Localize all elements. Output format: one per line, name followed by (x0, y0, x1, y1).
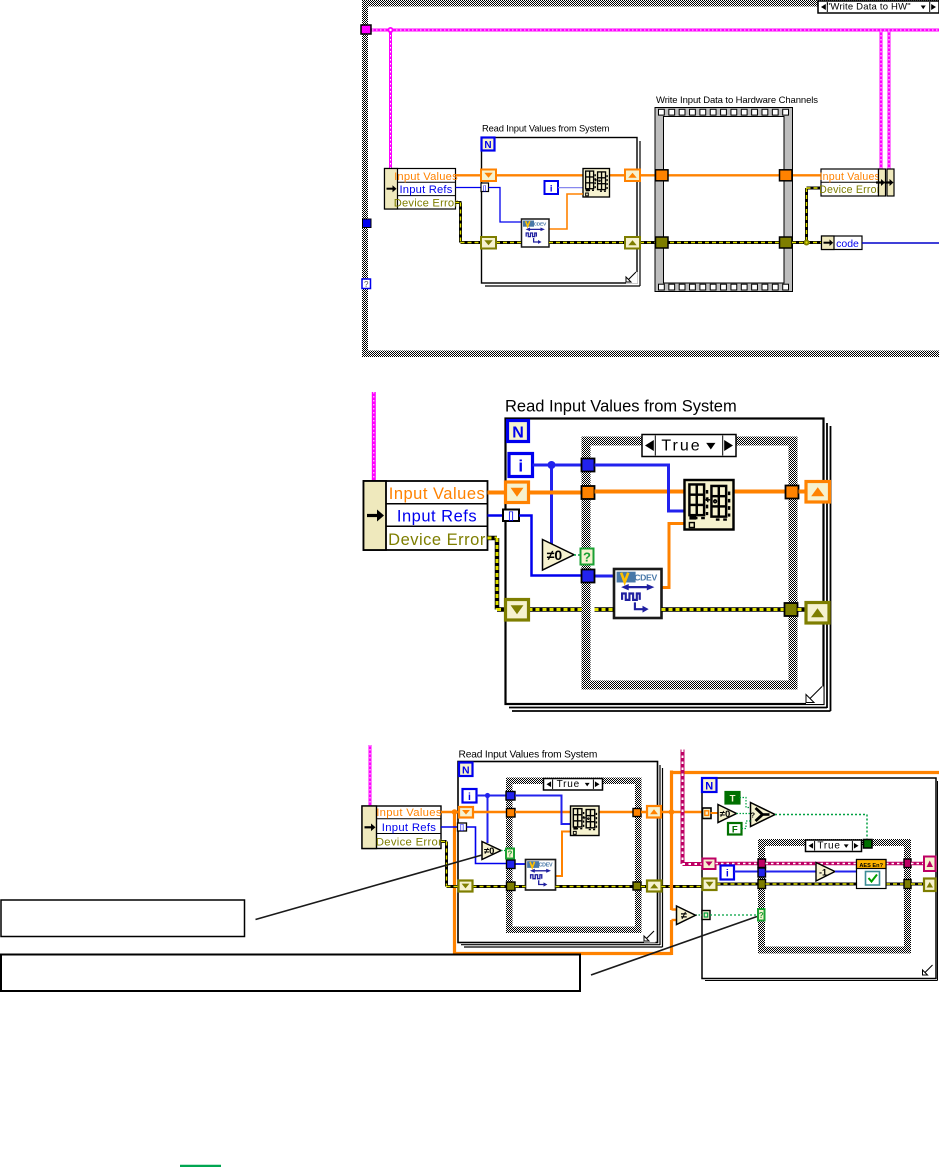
svg-text:N: N (462, 765, 470, 777)
svg-text:Input Refs: Input Refs (382, 822, 437, 834)
svg-text:Device Error: Device Error (388, 531, 486, 549)
svg-text:Input Values: Input Values (820, 171, 881, 183)
svg-text:Input Refs: Input Refs (400, 184, 453, 196)
svg-text:"Write Data to HW": "Write Data to HW" (827, 2, 911, 13)
svg-text:?: ? (508, 850, 513, 859)
svg-text:?: ? (364, 280, 369, 289)
svg-text:i: i (726, 868, 729, 880)
svg-text:≠0: ≠0 (484, 846, 495, 857)
svg-text:Device Error: Device Error (376, 837, 442, 849)
svg-text:N: N (512, 425, 524, 442)
svg-text:CDEV: CDEV (539, 863, 553, 869)
svg-text:≠0: ≠0 (547, 547, 563, 563)
svg-text:i: i (468, 791, 471, 803)
svg-text:Read Input Values from System: Read Input Values from System (505, 398, 737, 416)
svg-text:?: ? (759, 911, 764, 920)
svg-text:[]: [] (483, 185, 487, 192)
svg-text:≠0: ≠0 (720, 809, 731, 820)
svg-text:AES En?: AES En? (859, 863, 883, 869)
svg-text:[]: [] (460, 825, 464, 832)
svg-text:CDEV: CDEV (534, 221, 547, 227)
svg-text:≠: ≠ (681, 910, 687, 922)
svg-text:Input Values: Input Values (376, 807, 442, 819)
svg-text:True: True (661, 437, 701, 454)
svg-text:Device Error: Device Error (394, 198, 459, 210)
svg-text:Read Input Values from System: Read Input Values from System (482, 123, 610, 134)
svg-text:True: True (817, 840, 840, 851)
svg-text:Read Input Values from System: Read Input Values from System (459, 750, 598, 761)
svg-text:True: True (557, 779, 580, 790)
svg-text:i: i (550, 183, 553, 194)
svg-text:Input Values: Input Values (389, 485, 486, 503)
svg-text:N: N (484, 140, 491, 151)
svg-text:Input Values: Input Values (394, 171, 458, 183)
svg-text:?: ? (751, 811, 756, 820)
svg-text:Input Refs: Input Refs (397, 507, 477, 525)
svg-text:F: F (732, 824, 738, 835)
svg-text:-1: -1 (819, 868, 827, 878)
svg-text:N: N (705, 780, 713, 792)
svg-text:CDEV: CDEV (634, 572, 657, 582)
svg-text:[]: [] (508, 511, 514, 522)
svg-text:T: T (730, 793, 736, 804)
svg-text:code: code (836, 238, 859, 250)
svg-text:Device Error: Device Error (819, 184, 881, 196)
svg-text:Write Input Data to Hardware C: Write Input Data to Hardware Channels (656, 95, 818, 106)
svg-text:i: i (518, 457, 523, 476)
svg-text:?: ? (583, 549, 591, 564)
